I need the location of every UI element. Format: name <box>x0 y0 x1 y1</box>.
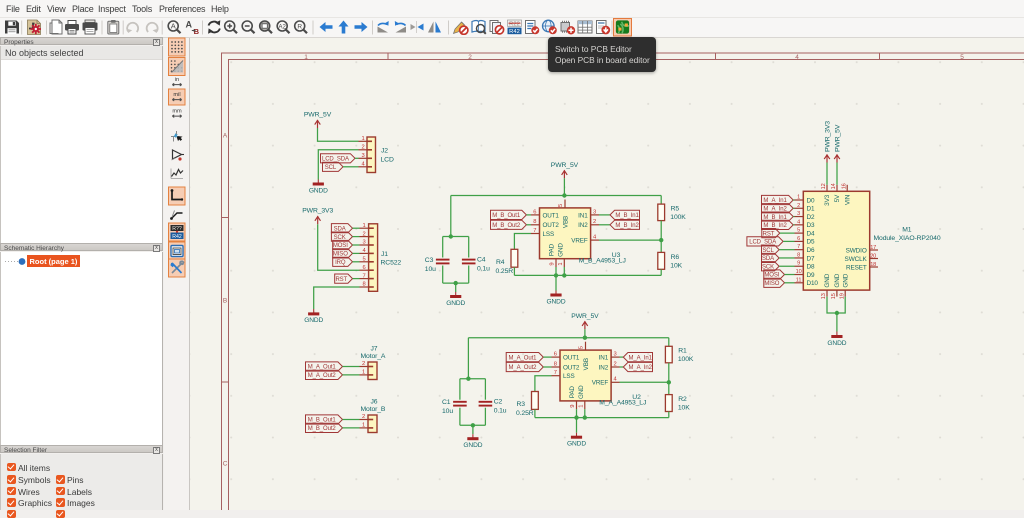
label M_B_Out1 (J6) <box>306 415 343 424</box>
wire caps bottom (U2) <box>460 424 486 426</box>
svg-text:GNDD: GNDD <box>304 317 323 324</box>
ground GNDD (U3) <box>555 275 557 290</box>
capacitor C2 0.1u <box>484 379 486 400</box>
svg-text:SWCLK: SWCLK <box>845 256 868 263</box>
svg-text:Module_XIAO-RP2040: Module_XIAO-RP2040 <box>874 235 941 242</box>
svg-text:IRQ: IRQ <box>335 260 346 266</box>
svg-text:GND: GND <box>578 385 585 399</box>
svg-text:OUT2: OUT2 <box>563 364 580 371</box>
junction caps top (U3) <box>449 234 453 238</box>
svg-text:OUT2: OUT2 <box>543 222 560 229</box>
svg-text:C4: C4 <box>477 257 486 264</box>
label SDA (M1 pin 8) <box>762 253 780 262</box>
svg-text:GNDD: GNDD <box>309 187 328 194</box>
junction caps top (U2) <box>466 377 470 381</box>
svg-text:18: 18 <box>870 262 876 268</box>
svg-text:4: 4 <box>795 54 799 61</box>
svg-text:12: 12 <box>821 183 827 189</box>
label LCD_SDA <box>321 154 356 163</box>
left toolbar strip <box>164 38 190 510</box>
power flag PWR_3V3 (J1) <box>302 208 333 225</box>
svg-text:J7: J7 <box>371 346 378 353</box>
svg-text:1: 1 <box>361 136 364 142</box>
wire PWR_3V3 to J1 pin6 <box>318 224 360 270</box>
power flag PWR_5V (U3) <box>551 162 579 179</box>
svg-text:10K: 10K <box>670 262 682 269</box>
junction VBB rail (U3) <box>562 193 566 197</box>
wire J2 pin2 to GNDD <box>318 150 358 180</box>
label LCD_SDA (M1 pin 6) <box>747 237 783 246</box>
wire PWR_5V to M1 5V <box>836 163 838 185</box>
svg-text:11: 11 <box>796 277 802 283</box>
svg-text:PWR_5V: PWR_5V <box>304 112 332 119</box>
schematic canvas <box>190 38 1024 510</box>
svg-text:GNDD: GNDD <box>827 340 846 347</box>
svg-text:3: 3 <box>361 153 364 159</box>
resistor R6 10K <box>660 240 662 252</box>
wire LSS to R4 <box>514 234 531 250</box>
wire VREF divider (U3) <box>599 239 661 241</box>
svg-text:3: 3 <box>613 352 616 358</box>
wire SCL to J2 pin4 <box>343 166 359 168</box>
svg-text:2: 2 <box>361 145 364 151</box>
svg-text:R1: R1 <box>678 348 687 355</box>
svg-text:C3: C3 <box>425 257 434 264</box>
svg-text:5: 5 <box>579 346 585 349</box>
wire rail to caps (U2) <box>467 338 469 379</box>
svg-text:PAD: PAD <box>549 243 556 256</box>
svg-text:Motor_A: Motor_A <box>361 353 386 360</box>
svg-text:OUT1: OUT1 <box>563 355 580 362</box>
svg-text:R2: R2 <box>678 396 687 403</box>
label M_A_In2 <box>620 366 624 368</box>
svg-text:D3: D3 <box>807 222 815 229</box>
power flag PWR_5V (M1) <box>834 124 841 162</box>
wire rail to caps (U3) <box>450 196 452 237</box>
svg-text:100K: 100K <box>678 356 694 363</box>
label M_A_In1 (M1 pin 1) <box>762 195 794 204</box>
svg-text:M_A_Out1: M_A_Out1 <box>509 355 538 361</box>
svg-text:C: C <box>223 461 228 468</box>
svg-text:16: 16 <box>841 183 847 189</box>
svg-text:M_B_In1: M_B_In1 <box>615 213 639 219</box>
svg-text:6: 6 <box>362 265 365 271</box>
label SCK (J1 pin 2) <box>331 232 352 241</box>
ground GNDD (J2) <box>309 180 328 195</box>
svg-text:OUT1: OUT1 <box>543 212 560 219</box>
label M_A_Out2 (J7) <box>306 370 343 379</box>
op-amp U2 M_A_A4953_LJ <box>552 342 620 410</box>
connector J1 RC522 <box>360 223 378 291</box>
label MOSI (J1 pin 3) <box>333 240 353 249</box>
wire caps bottom (U3) <box>443 282 469 284</box>
wire MISO to M1 <box>785 282 795 284</box>
svg-text:A: A <box>186 20 193 30</box>
svg-text:100K: 100K <box>670 214 686 221</box>
svg-text:19: 19 <box>839 293 845 299</box>
svg-text:M_A_A4953_LJ: M_A_A4953_LJ <box>599 400 646 407</box>
svg-text:6: 6 <box>797 236 800 242</box>
svg-text:14: 14 <box>831 183 837 189</box>
wire M1 GND pins to GNDD <box>827 297 845 313</box>
svg-text:9: 9 <box>797 261 800 267</box>
svg-text:PWR_5V: PWR_5V <box>551 162 579 169</box>
svg-text:1: 1 <box>579 405 585 408</box>
svg-text:M_A_Out2: M_A_Out2 <box>308 373 337 379</box>
label RST (J1 pin 7) <box>335 274 353 283</box>
svg-text:3: 3 <box>362 240 365 246</box>
svg-text:RC522: RC522 <box>381 260 402 267</box>
svg-text:GND: GND <box>834 273 841 287</box>
svg-text:VBB: VBB <box>563 216 570 228</box>
svg-text:2: 2 <box>593 219 596 225</box>
wire LCD_SDA to M1 <box>783 240 794 242</box>
connector J2 LCD <box>359 136 376 173</box>
ground GNDD (caps U3) <box>446 292 465 307</box>
svg-text:R: R <box>297 23 302 30</box>
ground GNDD (J1) <box>304 309 323 324</box>
wire LCD_SDA to J2 pin3 <box>355 157 359 159</box>
svg-text:20: 20 <box>870 253 876 259</box>
svg-text:7: 7 <box>533 228 536 234</box>
svg-text:R3: R3 <box>517 401 526 408</box>
wire LSS to R3 <box>535 376 552 392</box>
svg-text:RST: RST <box>335 277 347 283</box>
wire PWR_5V rail (U3) <box>563 178 565 195</box>
svg-text:D7: D7 <box>807 255 815 262</box>
svg-text:6: 6 <box>533 209 536 215</box>
svg-text:0.1u: 0.1u <box>494 408 507 415</box>
svg-text:LSS: LSS <box>563 373 575 380</box>
label IRQ (J1 pin 5) <box>333 257 353 266</box>
properties panel <box>0 37 163 45</box>
svg-text:M_A_Out2: M_A_Out2 <box>509 365 538 371</box>
label MOSI (M1 pin 10) <box>764 270 785 279</box>
svg-text:R5: R5 <box>671 206 680 213</box>
resistor R1 100K <box>668 338 670 347</box>
svg-text:1: 1 <box>362 423 365 429</box>
svg-text:A2: A2 <box>279 24 287 30</box>
resistor R5 100K <box>660 196 662 205</box>
svg-text:LCD_SDA: LCD_SDA <box>322 157 349 163</box>
svg-text:M_B_A4953_LJ: M_B_A4953_LJ <box>579 258 626 265</box>
label SDA (J1 pin 1) <box>331 224 352 233</box>
wire M_A_In2 to M1 <box>793 207 794 209</box>
svg-text:2: 2 <box>797 203 800 209</box>
svg-text:M_A_In2: M_A_In2 <box>629 365 653 371</box>
svg-text:1: 1 <box>362 370 365 376</box>
svg-text:10K: 10K <box>678 405 690 412</box>
svg-text:5: 5 <box>558 204 564 207</box>
svg-text:10u: 10u <box>425 266 436 273</box>
svg-text:in: in <box>175 77 179 83</box>
svg-text:D6: D6 <box>807 247 815 254</box>
resistor R2 10K <box>668 382 670 394</box>
sheet border frame <box>222 53 1024 510</box>
label RST (M1 pin 5) <box>762 229 780 238</box>
svg-text:M_A_In1: M_A_In1 <box>629 355 653 361</box>
svg-text:0.25R: 0.25R <box>516 410 534 417</box>
menu bar <box>0 0 1024 18</box>
power flag PWR_5V (J2) <box>304 112 332 129</box>
svg-text:MISO: MISO <box>764 281 779 287</box>
capacitor C1 10u <box>459 379 461 400</box>
svg-text:LCD: LCD <box>381 157 394 164</box>
power flag PWR_5V (U2) <box>571 313 599 330</box>
svg-text:1: 1 <box>304 54 308 61</box>
svg-text:7: 7 <box>554 370 557 376</box>
wire bottom rail (U2) <box>535 417 669 419</box>
svg-text:VREF: VREF <box>592 380 609 387</box>
wire PWR_5V rail (U2) <box>584 329 586 337</box>
svg-text:9: 9 <box>549 262 555 265</box>
svg-text:4: 4 <box>797 219 800 225</box>
capacitor C3 10u <box>442 237 444 258</box>
svg-text:8: 8 <box>362 282 365 288</box>
svg-text:2: 2 <box>613 361 616 367</box>
svg-text:1: 1 <box>362 223 365 229</box>
wire VREF divider (U2) <box>620 381 669 383</box>
svg-text:PWR_3V3: PWR_3V3 <box>825 121 832 152</box>
svg-text:VIN: VIN <box>844 194 851 205</box>
svg-text:1: 1 <box>558 262 564 265</box>
svg-text:R6: R6 <box>671 254 680 261</box>
wire SCL to M1 <box>779 249 794 251</box>
schematic hierarchy panel <box>0 243 163 251</box>
svg-text:17: 17 <box>870 245 876 251</box>
svg-text:SWDIO: SWDIO <box>846 247 867 254</box>
svg-text:10u: 10u <box>442 408 453 415</box>
svg-text:GND: GND <box>842 273 849 287</box>
svg-text:5: 5 <box>362 257 365 263</box>
svg-text:VREF: VREF <box>571 238 588 245</box>
op-amp U3 M_B_A4953_LJ <box>531 200 599 268</box>
svg-text:13: 13 <box>821 293 827 299</box>
svg-text:7: 7 <box>362 273 365 279</box>
svg-text:RESET: RESET <box>846 264 867 271</box>
label M_A_Out1 (J7) <box>306 362 343 371</box>
label M_A_Out2 <box>506 362 543 371</box>
svg-text:SCL: SCL <box>325 165 337 171</box>
resistor R4 0.25R <box>511 249 518 267</box>
svg-text:PWR_5V: PWR_5V <box>571 313 599 320</box>
label M_B_Out2 <box>491 220 527 229</box>
wire RST to M1 <box>780 232 795 234</box>
label M_A_In2 (M1 pin 2) <box>762 204 794 213</box>
label M_B_In1 (M1 pin 3) <box>762 212 794 221</box>
svg-text:J1: J1 <box>381 251 388 258</box>
svg-text:IN1: IN1 <box>599 355 609 362</box>
wire M_B_In1 to M1 <box>793 216 794 218</box>
svg-text:C1: C1 <box>442 399 451 406</box>
svg-text:7: 7 <box>797 244 800 250</box>
svg-text:PAD: PAD <box>569 386 576 399</box>
label MISO (M1 pin 11) <box>764 278 785 287</box>
label M_B_In2 (M1 pin 4) <box>762 220 794 229</box>
svg-text:GNDD: GNDD <box>463 442 482 449</box>
wire J1 pin8 to GNDD <box>314 287 360 309</box>
svg-text:R42: R42 <box>509 29 520 35</box>
label SCL <box>323 162 344 171</box>
svg-text:GND: GND <box>824 273 831 287</box>
svg-text:10: 10 <box>796 269 802 275</box>
svg-text:LSS: LSS <box>543 231 555 238</box>
label SCK (M1 pin 9) <box>762 262 780 271</box>
svg-text:IN1: IN1 <box>578 212 588 219</box>
ground GNDD (caps U2) <box>463 434 482 449</box>
wire bottom rail (U3) <box>514 274 661 276</box>
svg-text:8: 8 <box>554 361 557 367</box>
svg-text:GNDD: GNDD <box>446 300 465 307</box>
label M_B_Out1 <box>491 210 527 219</box>
svg-text:5: 5 <box>797 228 800 234</box>
svg-text:mil: mil <box>173 92 180 98</box>
svg-text:GNDD: GNDD <box>547 298 566 305</box>
svg-text:C2: C2 <box>494 399 503 406</box>
svg-text:M_B_Out1: M_B_Out1 <box>492 213 521 219</box>
ground GNDD (U2) <box>576 418 578 433</box>
svg-text:M_B_Out2: M_B_Out2 <box>492 223 521 229</box>
svg-text:GND: GND <box>558 243 565 257</box>
svg-text:15: 15 <box>831 293 837 299</box>
svg-text:3V3: 3V3 <box>824 194 831 206</box>
selection filter panel <box>0 445 163 453</box>
svg-text:VBB: VBB <box>583 358 590 370</box>
svg-text:3: 3 <box>593 209 596 215</box>
svg-text:J2: J2 <box>381 148 388 155</box>
svg-text:1: 1 <box>797 195 800 201</box>
tooltip <box>548 37 656 72</box>
M1 right pins SWDIO SWCLK RESET <box>870 249 878 251</box>
label M_A_Out1 <box>506 353 543 362</box>
svg-text:IN2: IN2 <box>599 364 609 371</box>
wire PWR_5V to J2 pin1 <box>318 128 359 141</box>
svg-text:PWR_3V3: PWR_3V3 <box>302 208 333 215</box>
svg-text:mm: mm <box>172 109 182 115</box>
label M_B_Out2 (J6) <box>306 423 343 432</box>
power flag PWR_3V3 (M1) <box>824 121 831 163</box>
svg-text:IN2: IN2 <box>578 222 588 229</box>
svg-text:D4: D4 <box>807 230 815 237</box>
svg-text:D10: D10 <box>807 280 819 287</box>
svg-text:0.25R: 0.25R <box>496 268 514 275</box>
svg-text:8: 8 <box>533 219 536 225</box>
wire SDA to M1 <box>779 257 794 259</box>
svg-text:A: A <box>171 22 176 31</box>
label M_B_In2 <box>599 224 610 226</box>
wire M_B_In2 to M1 <box>793 224 794 226</box>
svg-text:D8: D8 <box>807 264 815 271</box>
svg-text:9: 9 <box>570 405 576 408</box>
ground GNDD (M1) <box>827 332 846 347</box>
svg-text:M1: M1 <box>902 227 912 234</box>
wire PWR_3V3 to M1 3V3 <box>826 163 828 185</box>
wire SCK to M1 <box>779 265 794 267</box>
resistor R3 0.25R <box>532 392 539 410</box>
svg-text:0.1u: 0.1u <box>477 266 490 273</box>
svg-text:D1: D1 <box>807 206 815 213</box>
svg-text:PWR_5V: PWR_5V <box>835 124 842 152</box>
svg-text:2: 2 <box>362 361 365 367</box>
svg-text:D2: D2 <box>807 214 815 221</box>
svg-text:R22: R22 <box>509 21 520 27</box>
svg-text:6: 6 <box>554 352 557 358</box>
wire M_A_In1 to M1 <box>793 199 794 201</box>
svg-text:5: 5 <box>960 54 964 61</box>
svg-text:D0: D0 <box>807 197 815 204</box>
svg-text:D9: D9 <box>807 272 815 279</box>
capacitor C4 0.1u <box>468 237 470 258</box>
label MISO (J1 pin 4) <box>333 249 353 258</box>
svg-text:R42: R42 <box>172 234 182 240</box>
svg-text:GNDD: GNDD <box>567 441 586 448</box>
svg-text:B: B <box>223 298 227 305</box>
svg-text:8: 8 <box>797 252 800 258</box>
svg-text:M_B_In2: M_B_In2 <box>615 223 639 229</box>
junction VBB rail (U2) <box>583 336 587 340</box>
svg-text:2: 2 <box>362 231 365 237</box>
label SCL (M1 pin 7) <box>762 245 780 254</box>
svg-text:M_B_Out2: M_B_Out2 <box>308 426 337 432</box>
label M_A_In1 <box>620 356 624 358</box>
label M_B_In1 <box>599 214 610 216</box>
M1 bottom pins GND <box>826 290 828 297</box>
svg-text:2: 2 <box>362 414 365 420</box>
wire MOSI to M1 <box>785 274 795 276</box>
svg-text:J6: J6 <box>371 399 378 406</box>
svg-text:D5: D5 <box>807 239 815 246</box>
svg-text:2: 2 <box>468 54 472 61</box>
svg-text:3: 3 <box>797 211 800 217</box>
svg-text:Motor_B: Motor_B <box>361 406 386 413</box>
svg-text:5V: 5V <box>834 194 841 202</box>
M1 top pins 3V3 5V VIN <box>826 185 828 192</box>
top toolbar <box>0 18 1024 38</box>
svg-text:R4: R4 <box>496 259 505 266</box>
module M1 Module_XIAO-RP2040 <box>803 191 869 290</box>
